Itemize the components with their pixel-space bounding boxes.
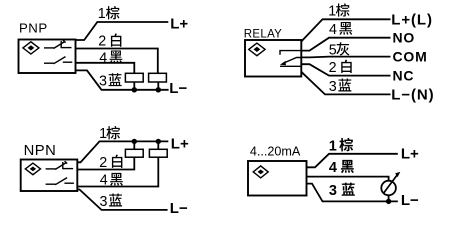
junction dot right: [156, 87, 161, 92]
wire pin3 blue to L- (npn): [77, 190, 167, 210]
sensor U3 body (NPN): [21, 160, 78, 192]
sensor U1 sensing-face diamond: [23, 42, 39, 54]
svg-text:3: 3: [99, 74, 107, 90]
svg-text:2: 2: [329, 60, 337, 76]
sensor U2 body (RELAY): [245, 40, 301, 77]
wire pin2 white to left load (npn): [77, 157, 134, 169]
wire pin4 black to meter (mA): [307, 177, 389, 181]
svg-text:4: 4: [100, 173, 108, 189]
svg-text:1: 1: [329, 138, 337, 154]
svg-text:4...20mA: 4...20mA: [250, 145, 301, 159]
svg-text:NO: NO: [393, 30, 416, 46]
svg-text:2: 2: [98, 33, 106, 49]
svg-text:L+: L+: [170, 15, 188, 32]
wire pin5 COM: [301, 56, 390, 59]
wire pin3 blue to L-(N): [301, 72, 390, 95]
wire pin2 NC: [301, 64, 390, 75]
wire pin2 white to right load: [76, 49, 158, 74]
sensor U1 body (PNP): [19, 40, 76, 74]
svg-text:4: 4: [99, 50, 107, 66]
svg-text:5: 5: [329, 43, 337, 59]
junction dot meter (mA): [386, 199, 391, 204]
svg-text:L−: L−: [170, 200, 188, 217]
load resistor right: [149, 73, 167, 82]
wire pin1 brown / L+ rail (npn): [77, 141, 168, 162]
sensor U3 output contact top (with actuator tick): [46, 161, 74, 169]
load resistor left: [125, 73, 143, 82]
svg-text:4: 4: [329, 22, 337, 38]
load leads from L+ rail (npn): [133, 141, 135, 149]
svg-text:RELAY: RELAY: [244, 29, 282, 41]
meter lead to L- rail (mA): [388, 195, 390, 201]
wire pin1 brown to L+(L): [301, 19, 390, 41]
wire pin4 black to left load: [76, 63, 135, 74]
junction dot right (npn): [156, 139, 161, 144]
wire pin4 NO: [301, 38, 390, 51]
svg-text:PNP: PNP: [19, 20, 48, 35]
ammeter arrow: [384, 175, 398, 194]
ammeter circle: [381, 181, 396, 196]
svg-text:3: 3: [329, 183, 337, 199]
relay NO contact: [280, 51, 301, 55]
svg-text:L−(N): L−(N): [391, 87, 434, 104]
svg-text:NPN: NPN: [24, 143, 57, 159]
sensor U1 output contact bottom: [44, 57, 72, 64]
junction dot left: [132, 87, 137, 92]
wire pin3 blue / L- rail (mA): [307, 184, 398, 202]
junction dot left (npn): [132, 139, 137, 144]
svg-text:1: 1: [98, 6, 106, 22]
svg-text:L+(L): L+(L): [391, 11, 433, 28]
relay armature from COM: [283, 58, 301, 64]
svg-text:4: 4: [329, 160, 337, 176]
svg-text:2: 2: [99, 155, 107, 171]
svg-text:L+: L+: [401, 146, 419, 163]
sensor U2 sensing-face diamond: [249, 43, 265, 56]
wire pin1 brown to L+ (mA): [307, 154, 398, 168]
wire pin3 blue / L- rail: [76, 70, 169, 89]
svg-text:L−: L−: [401, 192, 419, 209]
relay NC contact: [280, 65, 301, 67]
svg-text:1: 1: [99, 126, 107, 142]
svg-text:3: 3: [100, 194, 108, 210]
sensor U4 sensing-face diamond: [253, 166, 268, 178]
svg-text:3: 3: [329, 79, 337, 95]
load leads to L- rail: [133, 82, 135, 90]
svg-text:L−: L−: [169, 80, 187, 97]
sensor U3 output contact bottom: [46, 178, 74, 185]
sensor U4 body (4..20mA): [248, 161, 307, 196]
svg-text:1: 1: [328, 3, 336, 19]
wire pin4 black to right load (npn): [77, 157, 158, 186]
load resistor npn left: [125, 149, 143, 157]
sensor U3 sensing-face diamond: [25, 163, 40, 175]
sensor U1 output contact top (with actuator tick): [44, 40, 72, 48]
svg-text:COM: COM: [393, 48, 428, 64]
wire pin1 brown to L+: [76, 22, 169, 40]
svg-text:NC: NC: [393, 67, 415, 83]
svg-text:L+: L+: [171, 135, 189, 152]
load resistor npn right: [149, 149, 167, 157]
